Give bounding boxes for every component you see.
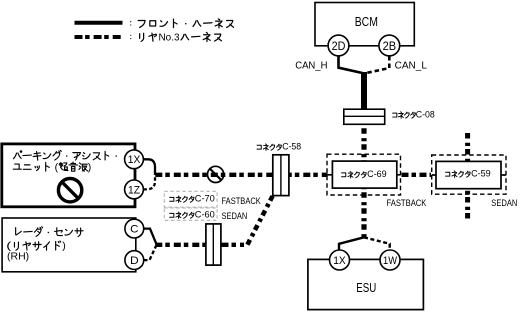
svg-text:C-08: C-08 <box>416 110 435 120</box>
svg-text:FASTBACK: FASTBACK <box>222 196 262 206</box>
svg-text:C-60: C-60 <box>195 210 215 220</box>
svg-text:FASTBACK: FASTBACK <box>387 198 428 208</box>
svg-text:CAN_L: CAN_L <box>395 59 427 71</box>
svg-text:No.3: No.3 <box>159 31 180 43</box>
svg-text:C-69: C-69 <box>367 169 387 179</box>
svg-text:1X: 1X <box>333 255 346 267</box>
svg-text:BCM: BCM <box>355 14 378 29</box>
svg-text:(RH): (RH) <box>7 250 29 262</box>
svg-text:): ) <box>88 161 92 173</box>
svg-text:1Z: 1Z <box>128 184 140 196</box>
svg-text:ESU: ESU <box>356 280 376 295</box>
svg-text:2D: 2D <box>332 39 346 53</box>
svg-text:C: C <box>130 224 138 236</box>
svg-text:SEDAN: SEDAN <box>491 198 517 208</box>
svg-text:CAN_H: CAN_H <box>295 59 327 71</box>
svg-text:D: D <box>130 255 139 267</box>
svg-text:SEDAN: SEDAN <box>222 211 248 221</box>
svg-text:C-59: C-59 <box>471 169 491 179</box>
svg-text:1W: 1W <box>383 255 398 267</box>
svg-text:C-70: C-70 <box>195 194 215 204</box>
svg-text:(: ( <box>55 161 59 173</box>
svg-text:2B: 2B <box>383 39 397 53</box>
svg-text:C-58: C-58 <box>282 142 301 152</box>
svg-text:): ) <box>62 240 66 252</box>
svg-text:1X: 1X <box>128 154 141 166</box>
